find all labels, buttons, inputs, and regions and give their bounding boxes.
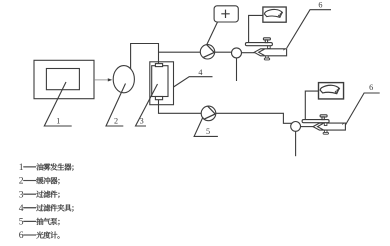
legend line 3 xyxy=(23,191,59,198)
oil mist generator box U1 outer xyxy=(34,60,94,98)
svg-text:1: 1 xyxy=(56,116,60,125)
bottom wire pump to corner xyxy=(216,113,292,123)
legend line 5 xyxy=(23,218,59,225)
wire riser buffer->filter xyxy=(131,44,159,69)
leader plus box to pump xyxy=(207,22,218,44)
filter element F3 body xyxy=(152,66,168,97)
legend line 6 xyxy=(23,231,59,238)
buffer ellipse B2 xyxy=(113,66,134,93)
svg-text:6: 6 xyxy=(19,230,24,241)
leader line 5 xyxy=(194,117,218,136)
svg-text:2: 2 xyxy=(114,116,118,125)
photometer U6 top: clamp bar xyxy=(245,38,272,49)
photometer U6 top: body xyxy=(254,49,286,60)
plus sign xyxy=(221,10,229,18)
filter cap top xyxy=(155,64,162,67)
filter holder box F4 xyxy=(150,62,174,105)
photometer U6 top: wire xyxy=(249,15,263,42)
wire bottom circle to nozzle xyxy=(301,126,314,128)
svg-text:6: 6 xyxy=(369,83,373,92)
leader line 3 xyxy=(136,84,158,126)
legend digits xyxy=(19,162,24,241)
pump P-top xyxy=(200,45,214,59)
leader line 4 xyxy=(174,77,213,87)
svg-text:3: 3 xyxy=(19,189,24,200)
legend line 4 xyxy=(23,204,73,211)
photometer U6 bottom: wire xyxy=(305,91,318,120)
pump P5 bottom xyxy=(201,106,216,121)
wire arrow from box1 to buffer xyxy=(94,79,108,81)
svg-text:6: 6 xyxy=(318,0,322,9)
legend line 2 xyxy=(23,177,59,184)
leader line 2 xyxy=(106,84,126,127)
wire top row pump to tee circle xyxy=(215,51,232,53)
tee circle bottom xyxy=(291,122,301,132)
filter cap bottom xyxy=(155,97,162,100)
leader line 6 bottom xyxy=(345,93,379,125)
svg-text:4: 4 xyxy=(198,68,202,77)
tee circle top xyxy=(232,48,242,58)
svg-text:2: 2 xyxy=(19,176,24,187)
wire top tee circle to nozzle xyxy=(241,52,255,54)
oil mist generator box U1 inner xyxy=(46,69,79,90)
photometer U6 bottom: body xyxy=(313,123,345,134)
svg-text:5: 5 xyxy=(206,127,210,136)
wire filter outlet to bottom pump xyxy=(159,100,202,114)
wire tee to top pump xyxy=(159,51,201,53)
plus box xyxy=(214,6,238,22)
vent drop top xyxy=(236,58,238,81)
svg-text:1: 1 xyxy=(19,162,24,173)
leader line 1 xyxy=(44,82,71,126)
photometer U6 bottom: clamp bar xyxy=(302,115,329,126)
photometer U6 bottom: meter xyxy=(319,83,344,99)
svg-text:4: 4 xyxy=(19,203,24,214)
svg-text:5: 5 xyxy=(19,217,24,228)
svg-text:3: 3 xyxy=(140,116,144,125)
vent drop bottom xyxy=(295,131,297,156)
photometer U6 top: meter xyxy=(263,7,286,22)
leader line 6 top xyxy=(287,10,331,48)
legend line 1 xyxy=(23,163,73,170)
